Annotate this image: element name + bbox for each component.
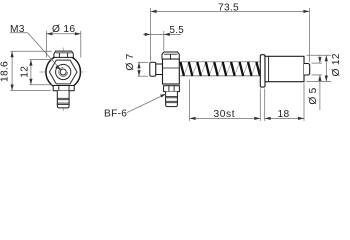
svg-text:18.6: 18.6 [0, 61, 11, 82]
svg-text:M3: M3 [10, 24, 25, 35]
svg-text:30st: 30st [214, 109, 236, 120]
svg-text:Ø 12: Ø 12 [331, 53, 342, 76]
svg-text:Ø 16: Ø 16 [52, 24, 75, 35]
svg-text:18: 18 [278, 109, 290, 120]
svg-text:12: 12 [20, 66, 31, 78]
svg-text:BF-6: BF-6 [104, 108, 127, 119]
svg-text:5.5: 5.5 [170, 25, 185, 36]
svg-text:Ø 7: Ø 7 [125, 53, 136, 70]
svg-text:73.5: 73.5 [218, 2, 239, 13]
svg-text:Ø 5: Ø 5 [308, 87, 319, 104]
